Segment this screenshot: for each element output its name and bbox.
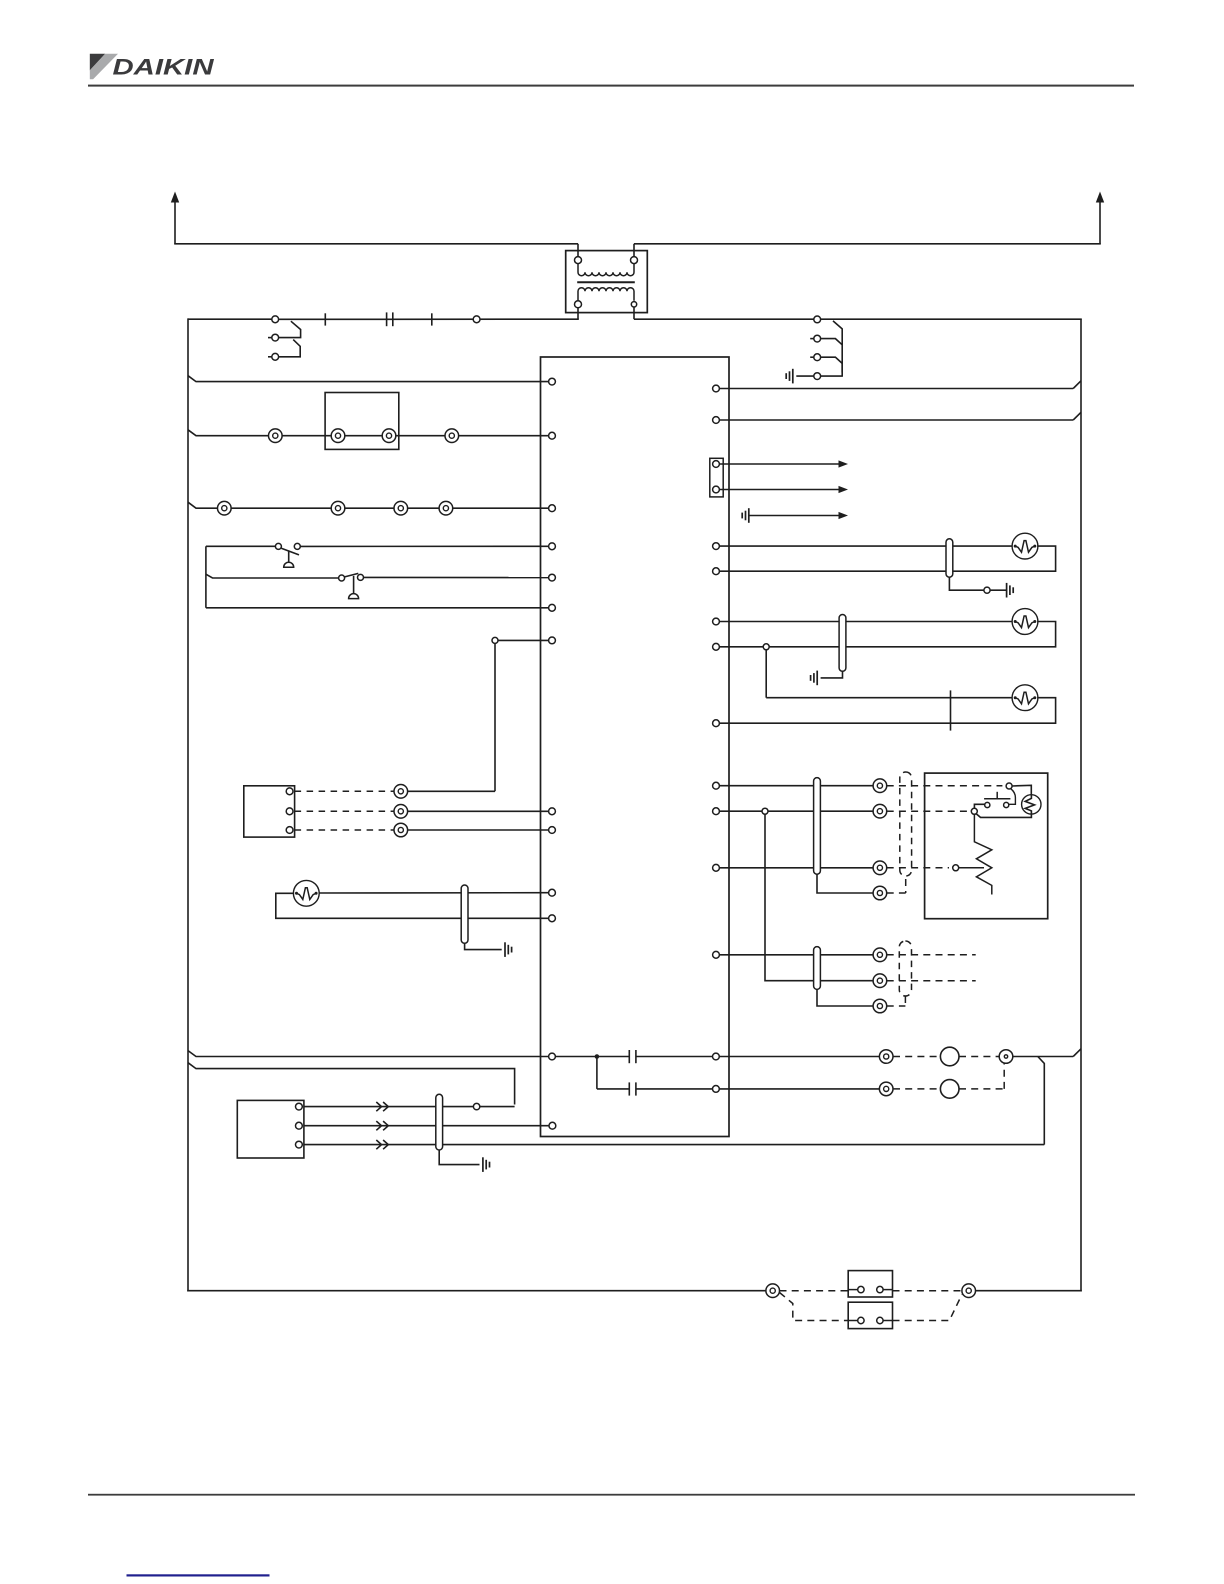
- wire row X2: [188, 430, 549, 436]
- node J3: [595, 1054, 600, 1059]
- wire L1 top rail: [174, 243, 578, 245]
- transformer TR1 case: [566, 251, 648, 313]
- ferrite core Z6F: [814, 947, 821, 990]
- cable sheath 2: [899, 941, 911, 1006]
- thermostat S3 actuator: [284, 550, 294, 567]
- terminal Y1: [394, 785, 408, 799]
- compressor M1C case: [925, 773, 1048, 919]
- wire row P2: [188, 1063, 515, 1105]
- harness wire 3: [295, 829, 394, 831]
- overload S1T contact a: [1004, 802, 1009, 807]
- terminal X23: [713, 543, 720, 550]
- capacitor plate mark: [950, 690, 952, 730]
- wire Y1: [408, 790, 495, 792]
- top rule: [88, 85, 1134, 87]
- wire row K2: [720, 1088, 880, 1090]
- lead K2b: [959, 1063, 1004, 1089]
- capacitor C1 plates: [387, 312, 393, 326]
- terminal X21: [713, 417, 720, 424]
- terminal X1: [549, 378, 556, 385]
- relay lead 4: [893, 1295, 962, 1321]
- terminal block TB2: [218, 501, 453, 515]
- wire row A: [720, 785, 874, 787]
- connector X12A pin 1: [296, 1103, 303, 1110]
- lead K1a: [893, 1056, 940, 1058]
- transformer TR1 terminal 2: [631, 257, 638, 264]
- heater tap wire: [959, 867, 984, 869]
- terminal X30: [713, 782, 720, 789]
- fuse F1 mark: [324, 313, 326, 325]
- voltage selector left step 2: [279, 340, 301, 357]
- transformer TR1 secondary lead left: [577, 308, 579, 319]
- fan motor M1F: [293, 880, 319, 906]
- ground G3 splice: [984, 587, 990, 593]
- connector X11A pin 2: [286, 808, 293, 815]
- terminal Y14: [873, 948, 887, 962]
- ferrite core Z1F: [461, 885, 468, 943]
- transformer TR1 secondary winding: [578, 288, 634, 301]
- terminal X24: [713, 568, 720, 575]
- terminal X6: [549, 604, 556, 611]
- ground G6 lead: [439, 1150, 479, 1165]
- field splice arrows 2: [376, 1121, 388, 1130]
- terminal Y18: [879, 1082, 893, 1096]
- signal wire 2: [720, 486, 849, 493]
- thermostat S3 contact b: [294, 543, 300, 549]
- ground G3: [990, 583, 1013, 598]
- ground G6: [483, 1157, 490, 1172]
- wire row R1: [720, 381, 1082, 389]
- switch jog S4: [206, 574, 339, 578]
- wire row S5: [206, 607, 549, 609]
- control PCB A1P: [541, 357, 730, 1137]
- outer enclosure right edge: [1080, 319, 1082, 1291]
- thermostat S3 blade: [281, 548, 299, 555]
- relay K2R pin 2: [877, 1317, 883, 1323]
- fan motor M4F: [1012, 685, 1038, 711]
- terminal Y10: [873, 779, 887, 793]
- tap selector right step 1: [833, 321, 842, 373]
- thermostat S4 actuator: [349, 576, 359, 599]
- capacitor C4: [940, 1047, 959, 1066]
- wire row F: [765, 814, 873, 981]
- terminal Y19: [999, 1050, 1013, 1064]
- terminal X27: [713, 720, 720, 727]
- lead K2a: [893, 1088, 940, 1090]
- tap selector right tap 2: [810, 335, 842, 345]
- harness wire 2: [295, 810, 394, 812]
- voltage selector left step 1: [279, 321, 301, 337]
- terminal X11: [549, 915, 556, 922]
- terminal X16: [713, 1086, 720, 1093]
- transformer TR1 primary lead right: [633, 244, 635, 257]
- relay K1R box: [848, 1271, 892, 1297]
- ground G4 lead: [821, 671, 843, 678]
- compressor node A: [1006, 783, 1012, 789]
- power lead L2 arrow: [1096, 192, 1104, 244]
- terminal X10: [549, 889, 556, 896]
- transformer TR1 terminal 4: [631, 302, 636, 307]
- wire row D: [817, 874, 873, 893]
- capacitor C2: [629, 1050, 636, 1063]
- Daikin logo mark: [90, 54, 118, 79]
- wire field row 1: [304, 1106, 473, 1108]
- terminal X26: [713, 643, 720, 650]
- ferrite core Z2F: [436, 1094, 443, 1150]
- lead E: [887, 954, 976, 956]
- wire M3F top rail: [720, 621, 1013, 623]
- outer enclosure left edge: [187, 318, 189, 1291]
- terminal Y17: [879, 1050, 893, 1064]
- relay lead 1: [780, 1290, 893, 1291]
- compressor lead B: [887, 810, 968, 812]
- wire cap row 1a: [556, 1056, 630, 1058]
- tap selector right tap 3: [810, 354, 842, 364]
- capacitor C5: [940, 1080, 959, 1099]
- terminal X15: [713, 1053, 720, 1060]
- terminal X7: [549, 637, 556, 644]
- terminal Y20: [766, 1284, 780, 1298]
- compressor motor feed top: [1012, 785, 1031, 795]
- compressor motor return: [976, 814, 1031, 818]
- power lead L1 arrow: [171, 192, 179, 244]
- wire row S3b: [300, 545, 548, 547]
- wire cap row 2: [597, 1088, 713, 1090]
- terminal Y3: [394, 823, 408, 837]
- wire row P1: [188, 1051, 549, 1057]
- overload link: [974, 804, 984, 808]
- compressor lead D: [887, 892, 906, 894]
- field splice arrows 3: [376, 1140, 388, 1149]
- wire field row 1b: [480, 1106, 515, 1108]
- wire row X1: [188, 376, 549, 382]
- transformer TR1 core bar: [577, 281, 635, 283]
- capacitor C3: [629, 1082, 636, 1095]
- wire M2F top rail: [720, 545, 1013, 547]
- fuse box F3: [325, 393, 399, 450]
- ground G1: [786, 369, 814, 384]
- relay K1R pin 1: [858, 1286, 864, 1292]
- ground G4: [811, 671, 818, 686]
- node J4: [763, 644, 769, 650]
- connector X22 body: [710, 458, 723, 497]
- wire Y2: [408, 810, 549, 812]
- connector X11A body: [244, 786, 295, 837]
- wire row B: [720, 810, 874, 812]
- compressor motor M1C: [1022, 795, 1041, 815]
- compressor node C: [953, 865, 959, 871]
- harness wire 1: [295, 790, 394, 792]
- contact S1 terminal: [272, 316, 279, 323]
- terminal Y11: [873, 804, 887, 818]
- svg-text:DAIKIN: DAIKIN: [113, 55, 215, 80]
- contact S2 terminal: [473, 316, 480, 323]
- terminal X4: [549, 543, 556, 550]
- lead K1b: [959, 1056, 999, 1058]
- outer enclosure bottom edge left: [187, 1290, 766, 1292]
- connector X12A pin 3: [296, 1141, 303, 1148]
- wire M1F return: [276, 893, 549, 918]
- terminal X3: [549, 505, 556, 512]
- wire row K1: [720, 1056, 880, 1058]
- terminal X32: [713, 864, 720, 871]
- wire K1 to edge: [1013, 1049, 1081, 1057]
- wire riser J1: [494, 643, 496, 791]
- wire top feed right: [634, 318, 1082, 320]
- outer enclosure bottom edge right: [976, 1290, 1082, 1292]
- wire row G: [817, 989, 873, 1006]
- wire field row 2: [304, 1125, 549, 1127]
- field splice arrows 1: [376, 1102, 388, 1111]
- relay K1R pin 2: [877, 1286, 883, 1292]
- terminal X5: [549, 574, 556, 581]
- wire row S4b: [364, 576, 549, 578]
- compressor node B: [971, 808, 977, 814]
- wire row S3a: [206, 545, 276, 547]
- wire row E: [720, 954, 874, 956]
- relay K2R pin 1: [858, 1317, 864, 1323]
- terminal Y21: [962, 1284, 976, 1298]
- overload S1T contact b: [985, 802, 990, 807]
- terminal Y13: [873, 886, 887, 900]
- terminal X25: [713, 618, 720, 625]
- ground G5 lead: [465, 943, 502, 949]
- terminal Y16: [873, 999, 887, 1013]
- wire L2 top rail: [634, 243, 1101, 245]
- node J1: [492, 637, 498, 643]
- terminal Y15: [873, 974, 887, 988]
- connector X22 pin 2: [713, 486, 720, 493]
- thermostat S4 blade: [345, 573, 359, 577]
- tap selector earth terminal: [814, 373, 821, 380]
- switch bus bracket: [205, 546, 207, 608]
- wire row X7: [498, 639, 549, 641]
- splice J2: [473, 1103, 479, 1109]
- crankcase heater E1H: [974, 814, 991, 894]
- wire top feed mid: [279, 318, 579, 320]
- thermostat S4 contact a: [339, 575, 345, 581]
- thermostat S3 contact a: [275, 543, 281, 549]
- signal wire 1: [720, 460, 849, 467]
- relay lead 3: [780, 1293, 893, 1321]
- transformer TR1 primary lead left: [577, 244, 579, 257]
- terminal X13: [549, 1122, 556, 1129]
- connector X22 pin 1: [713, 461, 720, 468]
- ferrite core Z3F: [946, 539, 953, 577]
- wire M4F loop: [720, 698, 1056, 724]
- terminal X31: [713, 808, 720, 815]
- wire top feed left: [188, 318, 272, 320]
- relay lead 2: [893, 1290, 962, 1292]
- terminal Y2: [394, 805, 408, 819]
- compressor lead A: [887, 785, 1003, 787]
- ferrite core Z5F: [814, 778, 821, 875]
- ground G3 lead: [949, 577, 984, 590]
- terminal Y12: [873, 861, 887, 875]
- lead F: [887, 980, 976, 982]
- terminal X20: [713, 385, 720, 392]
- connector X12A body: [237, 1100, 304, 1158]
- cable sheath 1: [900, 772, 912, 893]
- wire M2F loop: [720, 546, 1056, 571]
- terminal X33: [713, 951, 720, 958]
- wire M1F top rail: [319, 892, 549, 894]
- transformer TR1 secondary lead right: [633, 307, 635, 319]
- overload S1T bar: [984, 792, 1010, 799]
- bottom rule: [88, 1494, 1135, 1496]
- transformer TR1 terminal 1: [575, 257, 582, 264]
- relay K2R box: [848, 1302, 892, 1328]
- ferrite core Z4F: [839, 615, 846, 672]
- connector X12A pin 2: [296, 1122, 303, 1129]
- tap selector right common: [821, 363, 843, 376]
- wire row R2: [720, 412, 1082, 420]
- wire Y3: [408, 829, 549, 831]
- transformer TR1 primary winding: [578, 264, 634, 276]
- ground G5: [505, 942, 512, 957]
- voltage selector left tap 3: [268, 353, 279, 360]
- thermostat S4 contact b: [358, 574, 364, 580]
- voltage selector left tap 2: [268, 334, 279, 341]
- node J5: [762, 808, 768, 814]
- wire M3F loop: [720, 622, 1056, 647]
- lead G: [887, 1005, 906, 1007]
- Daikin logo text: [113, 55, 215, 80]
- wire row X3: [188, 502, 549, 508]
- wire field row 3: [304, 1144, 1044, 1146]
- wire cap row 1b: [636, 1056, 713, 1058]
- signal wire 3: [749, 512, 848, 519]
- terminal block TB1: [269, 429, 459, 443]
- wire row C: [720, 867, 874, 869]
- compressor lead C: [887, 867, 949, 869]
- transformer TR1 terminal 3: [575, 301, 582, 308]
- ground G2: [742, 508, 749, 523]
- fan motor M2F: [1012, 533, 1038, 559]
- fan motor M3F: [1012, 609, 1038, 635]
- wire M4F feed: [766, 650, 1013, 698]
- wire inner bus: [1038, 1057, 1045, 1145]
- overload contact feed: [1009, 789, 1016, 805]
- fuse F2 mark: [431, 313, 433, 325]
- blue footer line: [127, 1574, 270, 1576]
- terminal X14: [549, 1053, 556, 1060]
- terminal X2: [549, 432, 556, 439]
- connector X11A pin 3: [286, 827, 293, 834]
- connector X11A pin 1: [286, 788, 293, 795]
- tap selector right terminal 1: [814, 316, 821, 323]
- terminal X9: [549, 827, 556, 834]
- terminal X8: [549, 808, 556, 815]
- wire cap riser: [596, 1057, 598, 1089]
